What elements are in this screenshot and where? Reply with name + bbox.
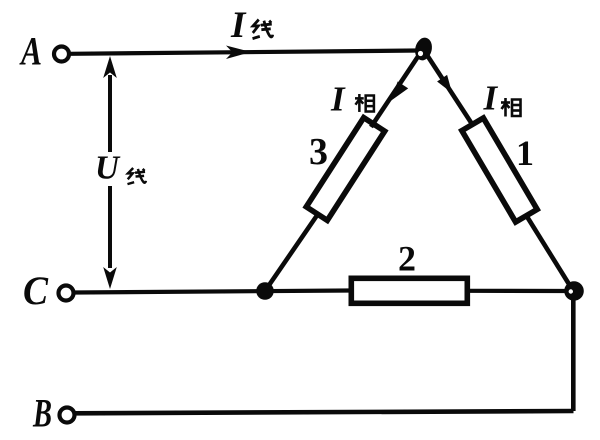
load 3 (306, 118, 384, 221)
svg-text:I: I (230, 5, 247, 46)
top vertex node (413, 36, 434, 62)
terminal A (54, 47, 69, 62)
measure arrow up (103, 56, 117, 78)
svg-text:1: 1 (516, 133, 534, 173)
wire C to load 2 (74, 291, 350, 293)
wire left node to load 3 (265, 211, 320, 291)
svg-text:C: C (23, 268, 49, 313)
label I phase right: 相 (501, 98, 521, 117)
svg-text:U: U (95, 150, 121, 187)
label U line: 线 (127, 168, 145, 184)
wire top vertex to load 1 (425, 52, 472, 124)
wire load 2 to right node (469, 289, 568, 293)
wire right node down (571, 295, 576, 411)
terminal C (59, 286, 74, 301)
phase arrow right (437, 75, 452, 93)
node left junction (256, 282, 274, 300)
wire load 1 to right node (526, 215, 572, 289)
measure arrow down (103, 267, 117, 289)
wire B to right corner (75, 411, 574, 413)
wire A to top vertex (70, 51, 419, 54)
load 2 (351, 278, 467, 303)
label I line: 线 (253, 20, 273, 39)
svg-text:I: I (330, 80, 346, 119)
terminal B (60, 408, 75, 423)
voltage measure line U (108, 75, 112, 152)
svg-text:I: I (483, 79, 499, 118)
load 1 (462, 118, 537, 222)
phase arrow left (390, 82, 408, 102)
arrow I line (226, 46, 251, 60)
node right junction (564, 281, 584, 301)
wire load 3 to top vertex (371, 52, 421, 127)
svg-text:2: 2 (398, 239, 416, 279)
svg-text:A: A (19, 29, 42, 74)
svg-text:3: 3 (309, 131, 328, 173)
label I phase left: 相 (355, 94, 374, 112)
svg-text:B: B (32, 391, 52, 436)
